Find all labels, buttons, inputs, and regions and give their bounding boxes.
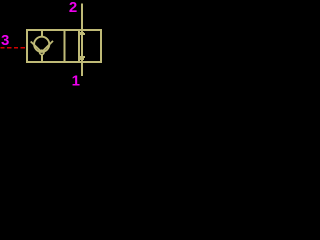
svg-text:2: 2 xyxy=(69,0,77,16)
svg-text:1: 1 xyxy=(72,72,80,89)
svg-text:3: 3 xyxy=(1,32,9,49)
